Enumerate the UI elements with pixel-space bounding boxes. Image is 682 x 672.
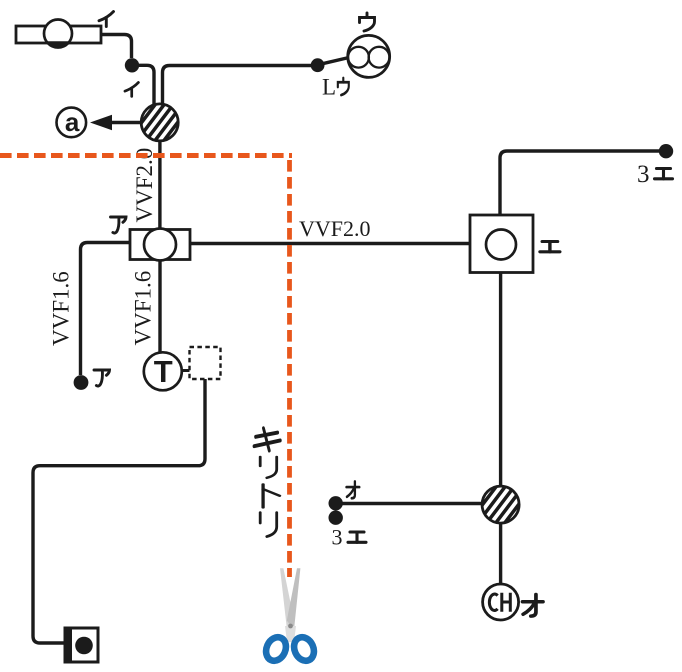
label イ (lamp): [99, 12, 114, 27]
svg-text:VVF2.0: VVF2.0: [299, 216, 371, 241]
switch イ (dot): [125, 58, 139, 72]
svg-text:3: 3: [332, 525, 343, 550]
cut line (orange dashed) vertical: [287, 160, 292, 577]
svg-text:VVF1.6: VVF1.6: [49, 271, 74, 346]
svg-text:a: a: [65, 107, 80, 137]
timer T: [144, 352, 182, 390]
label ア (switch): [94, 370, 110, 386]
box エ (square with circle): [470, 215, 533, 273]
label ア (box): [111, 217, 127, 233]
wire timer to dashed box: [182, 369, 190, 372]
wire box エ down to joint box 2: [499, 273, 502, 487]
pendant lamp ウ: [348, 35, 390, 77]
svg-text:VVF2.0: VVF2.0: [132, 148, 157, 223]
wire joint box 2 to switches オ/3エ: [340, 502, 483, 505]
wire joint box 2 down to chime: [499, 523, 502, 585]
ceiling box ア (rect with circle): [130, 229, 190, 261]
joint box 1 (hatched circle): [136, 98, 183, 147]
chime CH オ: [483, 584, 519, 620]
wire box ア to switch ア: [81, 243, 131, 376]
label キリトリ (vertical): [254, 428, 280, 450]
svg-text:L: L: [322, 75, 336, 100]
wire dot to lamp ウ (slanted): [322, 58, 349, 64]
switch オ (dot): [329, 496, 343, 510]
label エ (box): [540, 242, 560, 252]
wire box エ to box ア (VVF2.0 horizontal): [190, 242, 470, 245]
fluorescent lamp fixture イ: [16, 20, 101, 48]
label ウ (lamp): [360, 13, 375, 31]
arrow to node a: [108, 121, 141, 124]
svg-text:VVF1.6: VVF1.6: [131, 271, 156, 346]
dashed box (timer unit): [190, 347, 221, 379]
wire box ア down to timer: [158, 260, 161, 354]
scissors icon: [262, 568, 317, 664]
switch ア (dot): [74, 375, 89, 390]
svg-text:3: 3: [637, 161, 650, 188]
label オ (chime): [523, 595, 543, 617]
wire dashed box to bottom outlet: [33, 379, 205, 643]
wire lamp to switch イ: [101, 35, 132, 59]
node a (circled a): [57, 108, 87, 138]
wire switch イ down to joint box: [136, 65, 154, 105]
wire box エ up to switch 3エ: [500, 151, 660, 215]
wire joint box up to lamp ウ (horizontal run): [163, 66, 318, 106]
switch 3エ top right (dot): [659, 144, 673, 158]
switch 3エ (dot): [329, 511, 343, 525]
wire joint box down to box ア (VVF2.0): [158, 141, 161, 230]
label オ (switch): [347, 482, 360, 499]
joint box 2 (hatched circle): [477, 480, 524, 529]
outlet box with button (bottom left): [64, 627, 99, 664]
cut line (orange dashed) horizontal: [0, 153, 292, 158]
svg-text:T: T: [154, 354, 173, 389]
label イ (switch): [125, 82, 138, 96]
switch Lウ (dot): [311, 58, 325, 72]
